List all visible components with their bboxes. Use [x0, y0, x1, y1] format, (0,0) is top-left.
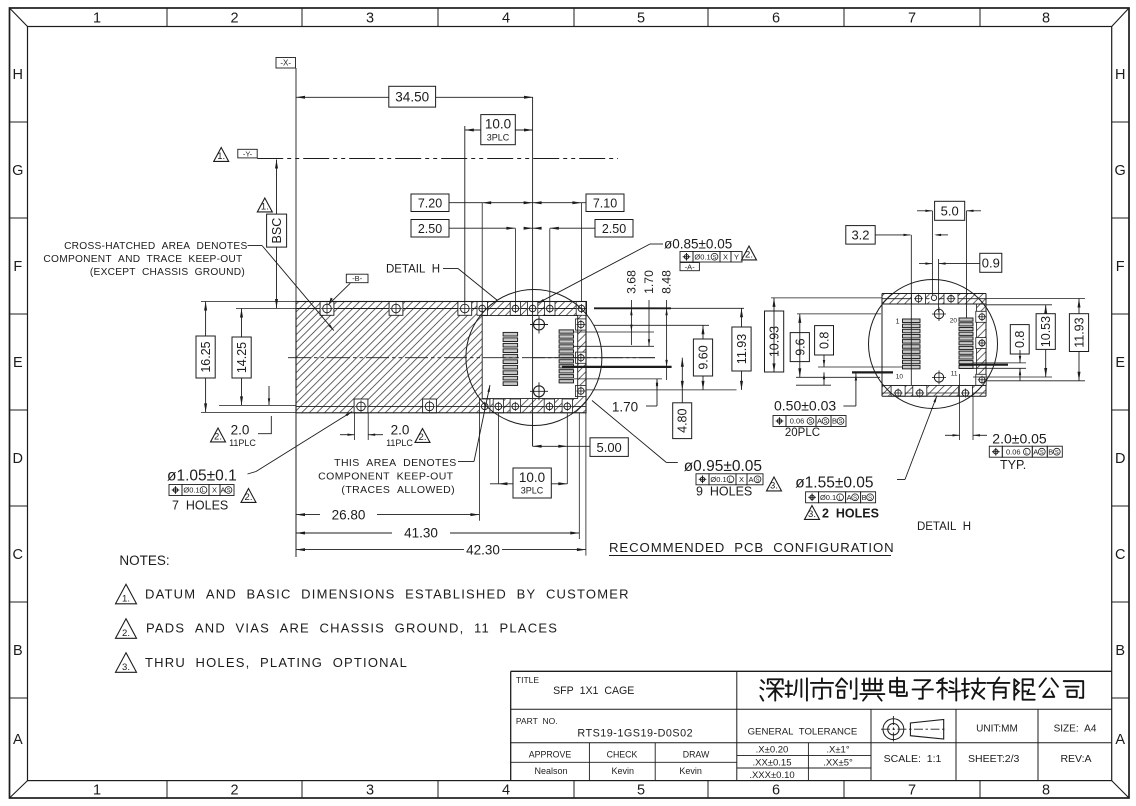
svg-text:DETAIL H: DETAIL H	[386, 264, 440, 276]
svg-text:14.25: 14.25	[235, 342, 249, 373]
svg-text:SIZE: A4: SIZE: A4	[1054, 724, 1097, 735]
svg-text:8: 8	[1042, 783, 1050, 799]
svg-text:41.30: 41.30	[404, 526, 438, 541]
svg-text:3: 3	[366, 11, 374, 27]
svg-text:-X-: -X-	[280, 59, 291, 68]
svg-text:G: G	[1115, 163, 1126, 179]
svg-text:7.20: 7.20	[418, 196, 442, 210]
svg-text:Ø0.1: Ø0.1	[183, 486, 199, 495]
svg-text:1.: 1.	[122, 593, 130, 604]
svg-text:PART NO.: PART NO.	[516, 716, 558, 726]
svg-text:11.93: 11.93	[735, 334, 749, 364]
svg-text:20PLC: 20PLC	[785, 427, 820, 439]
svg-text:5.00: 5.00	[596, 440, 621, 455]
svg-text:7: 7	[908, 783, 916, 799]
svg-text:1.: 1.	[217, 151, 225, 162]
svg-text:E: E	[1115, 355, 1125, 371]
svg-text:9.60: 9.60	[697, 345, 711, 369]
svg-text:UNIT:MM: UNIT:MM	[976, 724, 1018, 735]
svg-text:1: 1	[93, 11, 101, 27]
svg-text:7: 7	[908, 11, 916, 27]
svg-text:S: S	[227, 488, 231, 494]
svg-text:.X±0.20: .X±0.20	[756, 745, 789, 756]
svg-text:C: C	[1115, 547, 1125, 563]
svg-text:5: 5	[637, 11, 645, 27]
svg-text:Y: Y	[734, 252, 739, 261]
svg-text:3.: 3.	[122, 662, 130, 673]
svg-text:TYP.: TYP.	[1000, 458, 1026, 472]
svg-text:4: 4	[502, 783, 510, 799]
svg-text:10.0: 10.0	[519, 470, 545, 485]
svg-text:16.25: 16.25	[199, 341, 213, 372]
svg-text:B: B	[862, 493, 867, 502]
svg-text:0.9: 0.9	[982, 255, 1000, 270]
svg-text:Nealson: Nealson	[534, 766, 567, 776]
svg-text:Ø0.1: Ø0.1	[820, 493, 836, 502]
svg-text:1.70: 1.70	[612, 400, 638, 415]
svg-text:H: H	[13, 67, 23, 83]
svg-text:3: 3	[366, 783, 374, 799]
svg-text:1.70: 1.70	[642, 270, 656, 294]
svg-text:1: 1	[93, 783, 101, 799]
svg-text:11PLC: 11PLC	[386, 438, 413, 448]
svg-text:2.0: 2.0	[391, 423, 410, 438]
svg-text:THRU HOLES, PLATING OPTIONA: THRU HOLES, PLATING OPTIONAL	[145, 655, 408, 670]
svg-text:S: S	[839, 419, 843, 425]
svg-text:ø1.05±0.1: ø1.05±0.1	[167, 468, 237, 485]
svg-text:S: S	[713, 255, 717, 261]
svg-text:20: 20	[950, 318, 958, 325]
svg-text:9 HOLES: 9 HOLES	[696, 484, 752, 498]
svg-text:A: A	[847, 493, 852, 502]
svg-text:DETAIL H: DETAIL H	[917, 521, 971, 533]
svg-text:2.: 2.	[245, 492, 253, 503]
svg-text:0.06: 0.06	[1006, 447, 1021, 456]
svg-text:4.80: 4.80	[676, 408, 690, 432]
svg-text:1: 1	[896, 319, 900, 326]
svg-text:0.50±0.03: 0.50±0.03	[774, 398, 836, 414]
svg-text:2: 2	[230, 11, 238, 27]
svg-text:2.: 2.	[214, 431, 222, 442]
svg-text:6: 6	[772, 783, 780, 799]
svg-text:11: 11	[951, 371, 958, 378]
svg-text:7.10: 7.10	[593, 196, 617, 210]
svg-text:2.: 2.	[745, 249, 753, 260]
svg-text:NOTES:: NOTES:	[119, 553, 169, 568]
svg-text:S: S	[824, 419, 828, 425]
svg-text:COMPONENT AND TRACE KEEP-OU: COMPONENT AND TRACE KEEP-OUT	[43, 254, 242, 265]
svg-text:S: S	[809, 419, 813, 425]
svg-text:10.53: 10.53	[1039, 316, 1053, 347]
svg-text:.XXX±0.10: .XXX±0.10	[749, 770, 794, 781]
svg-text:S: S	[756, 477, 760, 483]
svg-text:S: S	[868, 495, 872, 501]
svg-text:3PLC: 3PLC	[521, 486, 544, 496]
svg-text:.XX±5°: .XX±5°	[823, 757, 853, 768]
svg-text:PADS AND VIAS ARE CHASSIS: PADS AND VIAS ARE CHASSIS GROUND, 11 PLA…	[146, 621, 558, 636]
svg-text:0.06: 0.06	[790, 417, 805, 426]
svg-text:10.0: 10.0	[485, 117, 511, 132]
svg-text:3PLC: 3PLC	[487, 133, 510, 143]
svg-text:SHEET:2/3: SHEET:2/3	[968, 753, 1020, 765]
svg-text:0.8: 0.8	[818, 332, 832, 349]
svg-text:TITLE: TITLE	[516, 675, 539, 685]
svg-text:-Y-: -Y-	[243, 149, 253, 158]
svg-text:9.6: 9.6	[793, 338, 807, 355]
svg-text:2.0±0.05: 2.0±0.05	[992, 431, 1047, 447]
svg-text:RECOMMENDED PCB CONFIGURATIO: RECOMMENDED PCB CONFIGURATION	[609, 540, 895, 555]
svg-text:A: A	[1115, 732, 1125, 748]
svg-text:X: X	[212, 486, 217, 495]
svg-text:ø0.95±0.05: ø0.95±0.05	[684, 458, 762, 475]
svg-text:7 HOLES: 7 HOLES	[172, 499, 228, 513]
svg-text:APPROVE: APPROVE	[529, 750, 572, 760]
svg-text:11.93: 11.93	[1073, 317, 1087, 347]
svg-text:2.: 2.	[122, 628, 130, 639]
svg-text:4: 4	[502, 11, 510, 27]
svg-text:A: A	[13, 732, 23, 748]
svg-text:ø0.85±0.05: ø0.85±0.05	[664, 237, 732, 252]
svg-text:Ø0.1: Ø0.1	[694, 252, 710, 261]
svg-text:C: C	[13, 547, 23, 563]
svg-text:F: F	[13, 259, 22, 275]
svg-text:42.30: 42.30	[466, 542, 500, 557]
svg-text:DATUM AND BASIC DIMENSIONS: DATUM AND BASIC DIMENSIONS ESTABLISHED B…	[145, 586, 630, 601]
svg-text:5: 5	[637, 783, 645, 799]
svg-text:A: A	[748, 475, 753, 484]
svg-text:Ø0.1: Ø0.1	[710, 475, 726, 484]
svg-text:6: 6	[772, 11, 780, 27]
svg-text:-B-: -B-	[352, 274, 363, 283]
svg-text:2.50: 2.50	[602, 222, 626, 236]
svg-text:RTS19-1GS19-D0S02: RTS19-1GS19-D0S02	[577, 728, 693, 740]
svg-text:3.68: 3.68	[624, 270, 638, 294]
svg-text:G: G	[12, 163, 23, 179]
svg-text:SCALE: 1:1: SCALE: 1:1	[884, 753, 942, 765]
svg-text:1.: 1.	[261, 201, 269, 212]
svg-text:2.: 2.	[419, 432, 427, 443]
svg-text:.XX±0.15: .XX±0.15	[752, 757, 791, 768]
svg-text:BSC: BSC	[270, 218, 284, 244]
svg-text:B: B	[13, 643, 23, 659]
svg-text:(TRACES ALLOWED): (TRACES ALLOWED)	[341, 484, 455, 496]
svg-text:34.50: 34.50	[395, 90, 429, 105]
svg-text:CHECK: CHECK	[607, 750, 638, 760]
svg-text:8.48: 8.48	[660, 270, 674, 294]
svg-text:S: S	[1055, 450, 1059, 456]
svg-text:(EXCEPT CHASSIS GROUND): (EXCEPT CHASSIS GROUND)	[90, 267, 245, 278]
svg-text:A: A	[817, 417, 822, 426]
svg-text:3.: 3.	[808, 509, 816, 520]
svg-text:ø1.55±0.05: ø1.55±0.05	[795, 475, 873, 492]
svg-text:Kevin: Kevin	[679, 766, 702, 776]
svg-text:X: X	[739, 475, 744, 484]
svg-text:GENERAL TOLERANCE: GENERAL TOLERANCE	[748, 727, 858, 738]
svg-text:-A-: -A-	[685, 262, 696, 271]
svg-text:11PLC: 11PLC	[229, 438, 256, 448]
svg-text:26.80: 26.80	[332, 507, 366, 522]
svg-text:3.: 3.	[770, 480, 778, 491]
svg-text:S: S	[1040, 450, 1044, 456]
svg-text:B: B	[1115, 643, 1125, 659]
svg-text:2.50: 2.50	[418, 222, 442, 236]
svg-text:2 HOLES: 2 HOLES	[822, 507, 879, 521]
svg-text:0.8: 0.8	[1013, 331, 1027, 348]
svg-text:8: 8	[1042, 11, 1050, 27]
svg-text:X: X	[723, 252, 728, 261]
svg-text:5.0: 5.0	[941, 203, 959, 218]
svg-text:10.93: 10.93	[768, 326, 782, 357]
svg-text:D: D	[13, 451, 23, 467]
svg-text:Kevin: Kevin	[611, 766, 634, 776]
svg-text:F: F	[1116, 259, 1125, 275]
svg-text:CROSS-HATCHED AREA DENOTES: CROSS-HATCHED AREA DENOTES	[64, 241, 247, 252]
svg-text:2.0: 2.0	[231, 423, 250, 438]
svg-text:10: 10	[896, 374, 904, 381]
svg-text:DRAW: DRAW	[683, 750, 710, 760]
svg-text:B: B	[832, 417, 837, 426]
svg-text:E: E	[13, 355, 23, 371]
svg-text:3.2: 3.2	[851, 228, 869, 243]
svg-text:S: S	[853, 495, 857, 501]
svg-text:SFP 1X1 CAGE: SFP 1X1 CAGE	[553, 685, 634, 697]
svg-text:THIS AREA DENOTES: THIS AREA DENOTES	[334, 457, 457, 469]
svg-text:.X±1°: .X±1°	[826, 745, 849, 756]
svg-text:COMPONENT KEEP-OUT: COMPONENT KEEP-OUT	[318, 470, 454, 482]
svg-text:B: B	[1048, 447, 1053, 456]
svg-text:REV:A: REV:A	[1060, 753, 1091, 765]
svg-text:D: D	[1115, 451, 1125, 467]
svg-text:2: 2	[230, 783, 238, 799]
svg-text:A: A	[1033, 447, 1038, 456]
svg-text:H: H	[1115, 67, 1125, 83]
